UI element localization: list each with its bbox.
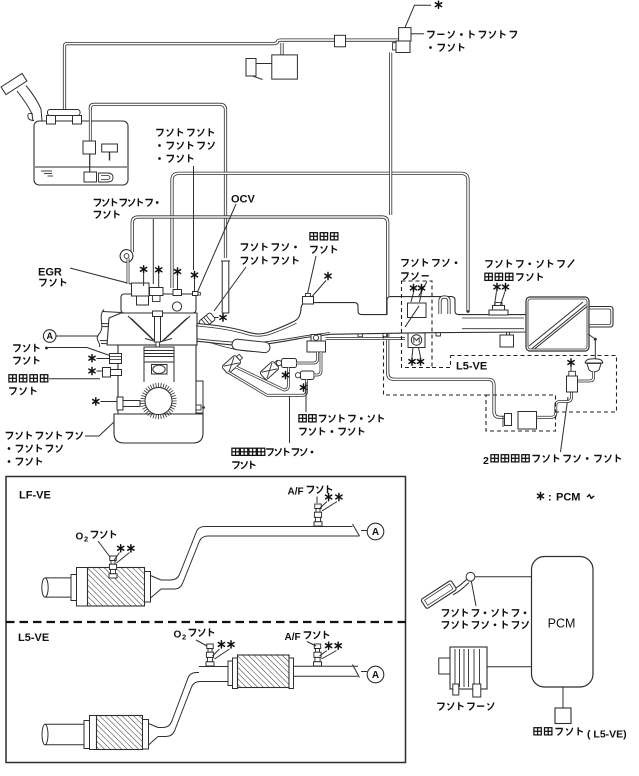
svg-text:L5-VE: L5-VE <box>18 632 49 644</box>
svg-text:PCM: PCM <box>548 617 576 631</box>
svg-text:OCV: OCV <box>231 194 256 206</box>
svg-text:LF-VE: LF-VE <box>19 490 51 502</box>
svg-text:A/F: A/F <box>288 487 304 498</box>
svg-text:A: A <box>372 670 379 681</box>
svg-text::: : <box>548 492 552 504</box>
svg-text:A/F: A/F <box>285 632 301 643</box>
svg-text:( L5-VE): ( L5-VE) <box>587 729 627 741</box>
svg-text:2: 2 <box>182 633 186 642</box>
svg-text:L5-VE: L5-VE <box>456 361 487 373</box>
svg-text:O: O <box>76 532 84 543</box>
svg-text:2: 2 <box>84 535 88 544</box>
svg-text:EGR: EGR <box>38 267 62 279</box>
svg-text:2: 2 <box>483 455 489 467</box>
svg-text:PCM: PCM <box>556 492 580 504</box>
svg-text:A: A <box>46 331 53 341</box>
svg-text:O: O <box>174 630 182 641</box>
svg-text:A: A <box>372 527 379 538</box>
